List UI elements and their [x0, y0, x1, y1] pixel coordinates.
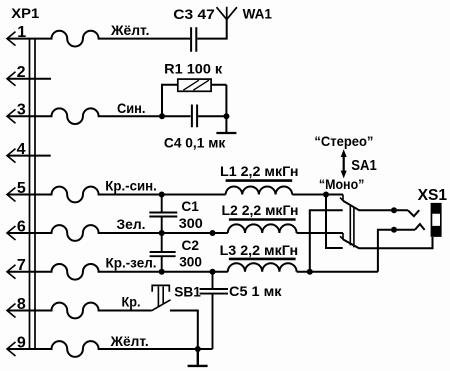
pin 5 wire — [7, 187, 226, 203]
inductor L1 — [226, 186, 293, 194]
svg-text:8: 8 — [17, 296, 26, 313]
svg-text:C5 1 мк: C5 1 мк — [229, 283, 283, 299]
XS1 tip contact dot — [391, 207, 397, 213]
pin 7 arrow — [7, 265, 16, 279]
pin 2 arrow — [7, 72, 16, 86]
svg-text:C3 47: C3 47 — [173, 6, 215, 22]
wire row9 corner to C5 — [198, 348, 213, 350]
junction node row9/ground — [195, 346, 201, 352]
junction node row7/C5 — [210, 269, 216, 275]
wire C3 to antenna corner — [197, 19, 226, 38]
svg-text:R1 100 к: R1 100 к — [164, 60, 223, 76]
junction node row6/C1C2 — [159, 230, 165, 236]
svg-text:C1: C1 — [181, 198, 199, 214]
wire L3 to right — [297, 271, 378, 273]
svg-text:ХР1: ХР1 — [11, 6, 40, 21]
capacitor C2 — [150, 233, 176, 272]
capacitor C5 — [200, 272, 228, 349]
svg-text:L1 2,2 мкГн: L1 2,2 мкГн — [220, 163, 299, 179]
svg-text:C4 0,1 мк: C4 0,1 мк — [164, 134, 226, 150]
inductor L2 — [228, 224, 297, 233]
svg-text:XS1: XS1 — [418, 187, 448, 204]
svg-text:“Моно”: “Моно” — [319, 177, 365, 192]
svg-text:6: 6 — [17, 218, 26, 235]
pin 9 wire — [7, 341, 213, 357]
pin 4 arrow — [7, 149, 16, 163]
junction node row7/SA1 — [307, 269, 313, 275]
core L2 — [229, 218, 296, 221]
switch SA1 section 1 — [340, 195, 343, 202]
svg-text:9: 9 — [17, 334, 26, 351]
wire SB1 right contact — [170, 311, 198, 350]
resistor R1 — [178, 79, 211, 91]
svg-text:Кр.: Кр. — [122, 295, 141, 310]
junction node row3 left — [159, 113, 165, 119]
pin 3 arrow — [7, 109, 16, 123]
svg-text:Жёлт.: Жёлт. — [110, 334, 149, 349]
wire row5 node down to SA1 section2 lower contact — [326, 195, 343, 249]
ground (C4/R1) — [216, 132, 236, 134]
pin 1 arrow — [7, 32, 16, 46]
junction node row6/C5 branch — [210, 230, 216, 236]
svg-text:Син.: Син. — [117, 101, 146, 116]
svg-text:L2 2,2 мкГн: L2 2,2 мкГн — [222, 202, 299, 218]
pin 8 wire — [7, 303, 152, 319]
ground (row 9) — [188, 349, 208, 366]
svg-text:Жёлт.: Жёлт. — [110, 23, 150, 38]
switch SA1 direction arrow — [343, 155, 345, 174]
svg-text:300: 300 — [179, 215, 203, 231]
svg-text:3: 3 — [17, 102, 26, 119]
button SB1 — [152, 300, 171, 311]
connector XP1 bus (double vertical line) — [30, 38, 36, 350]
pin 2 wire — [7, 78, 51, 80]
junction node row5/C1 — [159, 192, 165, 198]
capacitor C4 — [192, 105, 197, 128]
svg-text:300: 300 — [179, 253, 202, 269]
wire XS1 ring to row7 — [378, 230, 415, 272]
svg-text:7: 7 — [17, 257, 26, 274]
wire L1 to SA1 — [292, 194, 343, 196]
svg-text:4: 4 — [17, 141, 26, 158]
svg-text:1: 1 — [17, 24, 26, 41]
core L3 — [229, 258, 296, 261]
wire L2 to SA1 — [297, 232, 343, 234]
wire row7 node up to SA1 section1 lower contact — [310, 210, 343, 272]
wire C4 to node — [198, 115, 226, 117]
pin 8 arrow — [7, 304, 16, 318]
pin numbers — [17, 24, 27, 352]
svg-text:C2: C2 — [182, 237, 200, 253]
pin 6 wire — [7, 225, 228, 241]
XS1 ring break contact — [415, 224, 425, 230]
pin 5 arrow — [7, 188, 16, 202]
wire SA1 section1 output to XS1 tip — [359, 209, 409, 211]
capacitor C3 — [191, 27, 196, 52]
svg-text:5: 5 — [17, 180, 26, 197]
pin 6 arrow — [7, 226, 16, 240]
XS1 ring contact dot — [391, 227, 397, 233]
socket XS1 body — [431, 203, 442, 237]
switch SA1 section 2 — [340, 233, 343, 240]
pin 1 wire — [7, 31, 190, 47]
pin 7 wire — [7, 264, 228, 280]
svg-text:WA1: WA1 — [243, 5, 273, 21]
XS1 tip break contact — [408, 210, 419, 216]
svg-text:SB1: SB1 — [174, 284, 201, 300]
junction node row5/SA1 — [323, 192, 329, 198]
wire R1 branch left — [162, 85, 178, 117]
wire R1 branch right — [211, 85, 226, 133]
antenna WA1 — [217, 7, 237, 20]
pin 3 wire — [7, 108, 191, 124]
svg-text:2: 2 — [17, 64, 26, 81]
svg-text:Кр.-зел.: Кр.-зел. — [106, 256, 157, 271]
svg-text:“Стерео”: “Стерео” — [314, 134, 373, 149]
svg-text:Зел.: Зел. — [117, 217, 146, 232]
wire SA1 section2 output to XS1 sleeve — [359, 237, 433, 248]
core L1 — [226, 179, 293, 182]
svg-text:Кр.-син.: Кр.-син. — [105, 179, 157, 194]
SA1 arrow heads — [341, 149, 347, 157]
capacitor C1 — [149, 195, 177, 234]
junction node row3 right — [223, 113, 229, 119]
SA1 mechanical link — [350, 205, 354, 247]
junction node row7/C2 — [159, 269, 165, 275]
svg-text:SA1: SA1 — [351, 157, 377, 174]
pin 4 wire — [7, 155, 51, 157]
inductor L3 — [228, 263, 297, 272]
svg-text:L3 2,2 мкГн: L3 2,2 мкГн — [220, 242, 299, 258]
pin 9 arrow — [7, 342, 16, 356]
